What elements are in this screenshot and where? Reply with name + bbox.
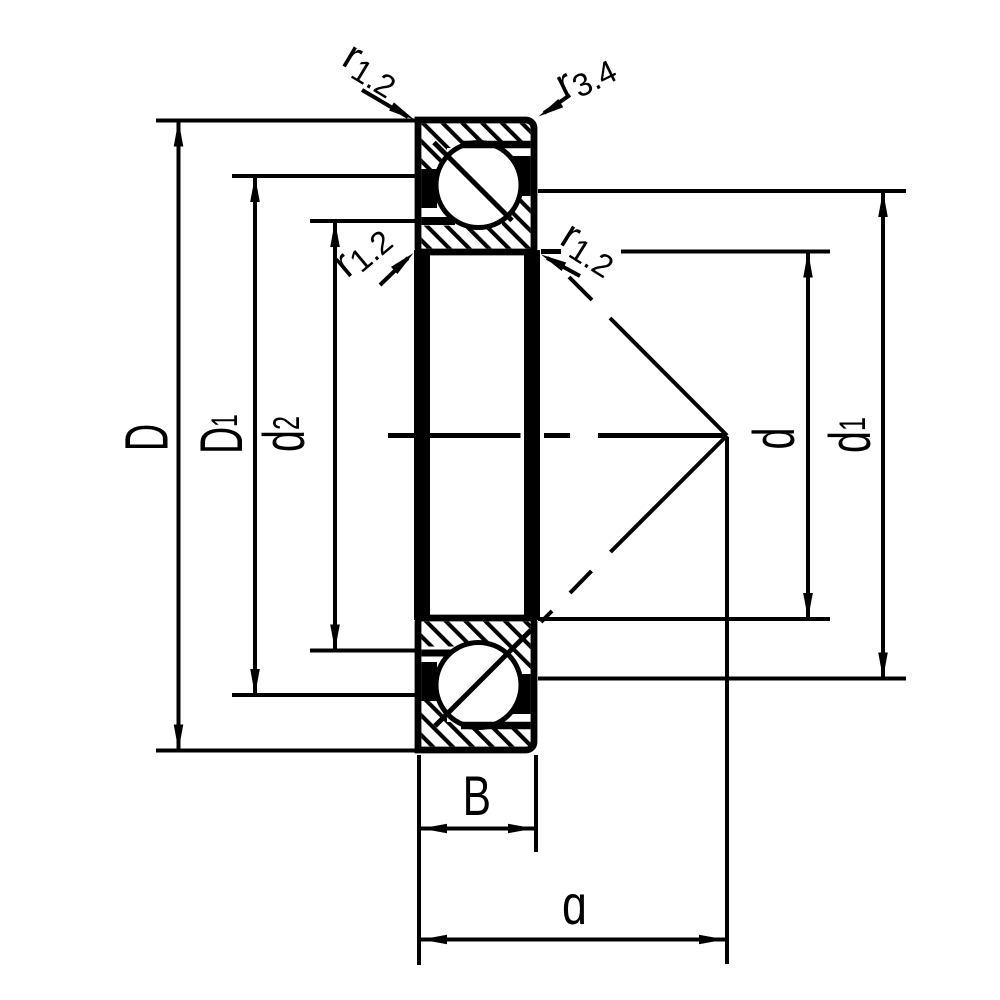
arrow D top [174,121,184,147]
ball bottom [436,643,521,728]
inner ring small shoulder line [422,217,456,225]
dimension D extension line top [156,119,418,123]
dimension d extension stub at corner [541,249,561,254]
outer ring hatch top [422,124,531,173]
cage section right bottom [503,674,531,714]
contact angle line upper [569,277,727,436]
dimension D extension line bottom [156,749,418,753]
top section outline [418,120,534,252]
leader r1.2 mid-right [547,258,580,276]
inner ring big shoulder line [517,159,531,164]
dimension B line [421,827,534,831]
dimension D1 extension line bottom [232,693,418,697]
top section body [418,120,534,252]
dimension d2 line [333,221,337,651]
dimension D1 line [253,176,257,695]
leader r3.4 top-right [544,95,570,113]
arrow d2 bottom [330,625,340,651]
outer ring small shoulder line [461,141,531,149]
inner ring hatch top [422,622,531,647]
inner ring hatch right shoulder [502,165,531,229]
dimension a line [421,938,725,942]
svg-text:ɑ: ɑ [562,873,587,936]
dimension d2 extension line bottom [310,649,418,653]
svg-text:B: B [463,764,491,827]
outer ring big shoulder line [422,169,442,176]
arrow a right [699,935,725,945]
svg-text:d: d [741,428,806,450]
dimension d1 extension line top [538,189,906,193]
dimension B extension line left [417,755,421,965]
arrow d top [803,252,813,278]
dimension D1 extension line top [232,174,418,178]
arrow d1 top [878,191,888,217]
arrow a left [421,935,447,945]
centerline axis dash-dot [388,433,727,438]
cage section left bottom [422,662,438,697]
dimension d1 extension line bottom [538,677,906,681]
dimension a extension line right [725,437,729,964]
dimension d2 extension line top [310,219,418,223]
bottom section body [418,618,534,750]
dimension D line [177,121,181,750]
dimension d extension line top [621,250,830,254]
outer ring small shoulder line bottom [461,722,531,730]
dimension B extension line right [534,755,538,852]
svg-text:D: D [112,424,181,451]
dimension d1 line [881,191,885,679]
contact angle line lower [541,436,727,623]
outer ring hatch bottom [422,698,531,747]
dimension d extension line bottom [538,617,830,621]
ball top [436,143,521,228]
cage section left [422,173,438,208]
inner ring hatch bottom [422,226,531,249]
dimension d line [806,252,810,620]
inner ring small shoulder line bottom [422,650,456,657]
ball top contact diagonal [434,143,512,221]
arrow d bottom [803,593,813,619]
leader r1.2 top-left [362,90,408,117]
inner ring big shoulder line bottom [517,707,531,712]
inner ring hatch right shoulder bottom [502,641,531,705]
leader r1.2 mid-left [380,258,408,285]
arrow D bottom [174,725,184,751]
inner ring bore wall left [414,250,430,620]
arrow B left [421,824,447,834]
cage section right [503,156,531,196]
ball bottom contact diagonal [435,630,531,726]
outer ring big shoulder line bottom [422,694,442,701]
bottom section outline [418,618,534,750]
inner ring bore wall right [524,250,540,620]
arrow D1 top [250,176,260,202]
arrow B right [508,824,534,834]
arrow d2 top [330,221,340,247]
arrow d1 bottom [878,653,888,679]
arrow D1 bottom [250,669,260,695]
